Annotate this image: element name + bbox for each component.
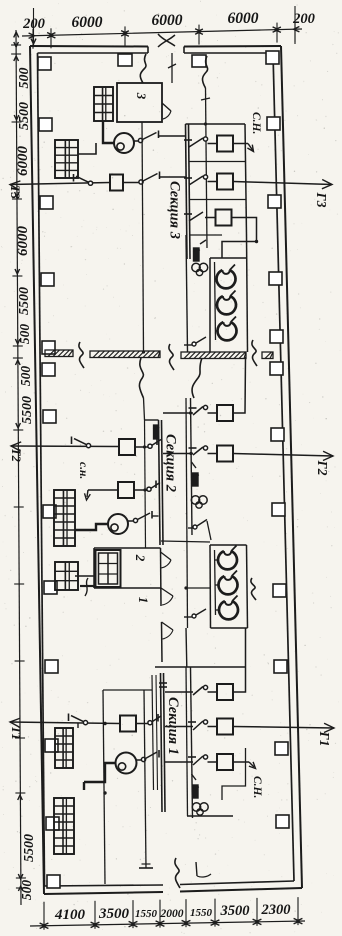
capacitor room inner feeder mid [215,550,216,615]
left cell 2 to S.N. arrow [88,489,118,491]
svg-text:Т1: Т1 [9,726,23,740]
column top wall a [118,54,132,66]
column right wall row1 [266,51,279,64]
partition wall door squiggle 3 [252,340,257,366]
right feeder column section 2 [191,398,193,535]
door arc bottom middle [196,862,197,876]
svg-text:3500: 3500 [220,903,250,919]
left dim arrowheads at label ticks [14,42,19,47]
top wall opening jamb right [183,47,185,54]
row line busbar to feeder R2 section 2 [163,453,193,455]
battery panel stack left section 3 [55,140,78,178]
riser left cells section 2 [145,420,146,548]
partition wall door gap squiggle 2 [169,344,174,370]
row line busbar to feeder R1 section 1 [165,691,193,693]
left cell box section 1 [120,716,136,732]
auxiliary transformer circle section 3 [114,133,134,153]
left cell disconnector section 1 [136,723,148,725]
door of chamber 3 [162,103,171,111]
cell row R2 section 1: disconnector [193,721,203,730]
door squiggle right of mid capacitor room [251,578,256,600]
column left wall row2 [39,118,52,131]
transformer to busbar disconnector section 1 [137,759,142,761]
column right wall row8 [273,584,286,597]
svg-text:6000: 6000 [228,10,259,27]
incoming cable squiggle left of entrance [140,54,146,83]
svg-text:6000: 6000 [152,12,183,29]
column right wall row11 [276,815,289,828]
cable squiggle through partition left section 2 [139,358,143,398]
disconnector bottom right section 2 [188,527,193,529]
column left wall row3 [40,196,53,209]
svg-text:1550: 1550 [135,908,158,920]
ground tick bottom of riser [139,867,153,869]
cell row R1 section 2: breaker box [217,405,233,421]
cell row 3 section 3: link down to capacitor room [222,218,257,259]
capacitor unit 2 section 3 [217,296,236,314]
cell row R3 section 1: breaker box [217,754,233,770]
feeder line T3 with arrow [10,183,110,185]
column left wall row9 [45,660,58,673]
svg-text:5500: 5500 [17,287,32,315]
room right wall upper with doors [160,548,163,606]
capacitor room inner feeder section 3 [215,262,216,340]
row line into capacitor room mid [188,587,211,589]
transformer chamber box 3 [117,83,162,122]
cell row R3 section 1: outgoing to S.N. [233,761,249,763]
busbar enclosure lines section 1 [152,675,154,790]
feeder line T1 with arrow [10,722,120,724]
column right wall row3 [268,195,281,208]
svg-text:6000: 6000 [15,226,31,257]
capacitor unit 3 mid [219,601,238,619]
cell row R1 section 1: link up to capacitor room [233,628,246,692]
long riser line section 1 [144,690,146,868]
feeder line G3 with arrow [233,182,332,185]
cell row 1 section 3: busbar tick [184,139,192,141]
cell row R2 section 2: breaker box [217,446,233,462]
svg-text:4100: 4100 [54,907,86,923]
cell row R1 section 1: tick [159,682,167,684]
column top wall b [192,55,206,67]
svg-text:Г2: Г2 [315,460,330,476]
cell row R1 section 2: link up to capacitor room above [233,357,246,413]
extension line top right corner [294,6,296,44]
left dimension line top arrow [14,32,19,37]
column left wall row5b [42,363,55,376]
column right wall row9 [274,660,287,673]
cable squiggle at bottom door [175,858,180,888]
battery panel stack lower section 1 [54,798,74,854]
svg-text:5500: 5500 [17,102,32,130]
cell row R1 section 2: disconnector [193,407,203,416]
disconnector on T3 line [88,181,92,185]
incoming cable squiggle right of entrance [202,56,207,88]
partition wall hatched segment 4 [262,352,273,359]
capacitor unit 1 mid [218,551,237,569]
building outer wall left [30,46,44,894]
charger panel stack section 3 [94,87,113,121]
transformer to busbar disconnector section 2 [128,520,134,522]
svg-text:500: 500 [17,68,32,89]
capacitor unit 2 mid [219,576,238,594]
column right wall row6 [271,428,284,441]
cell row R1 section 2: tick [189,407,197,409]
left dimension line [16,30,21,905]
svg-text:1: 1 [136,597,151,604]
capacitor stubs section 3 [215,278,217,280]
left cell 2 disconnector section 2 [134,489,147,491]
column left wall row1 [38,57,51,70]
feeder line G2 with arrow [233,454,333,457]
battery panel stack 2 section 2 [55,562,78,590]
cable squiggle through partition right section 2 [192,358,202,398]
svg-text:5500: 5500 [22,834,37,862]
svg-text:1550: 1550 [190,907,213,919]
door arc room 2 upper [161,552,172,560]
top dimension line [22,29,302,36]
instrument circles section 2 [191,496,199,504]
left cell disconnector section 3 [123,182,139,184]
svg-text:6000: 6000 [72,14,103,31]
reactor coil element section 1 [193,785,199,798]
capacitor unit 3 section 3 [218,322,237,340]
disconnector below capacitor room [184,616,192,618]
thick wire stack to transformer section 3 [103,121,114,143]
disconnector on T1 line [83,721,87,725]
instrument circles section 3 [192,263,200,271]
junction dot [255,240,258,243]
transformer grid box room 2 [96,550,121,587]
right feeder column section 1 [191,667,193,818]
battery stack to T1 link [77,724,79,729]
busbar section 2 [159,420,161,545]
tick on riser [201,98,210,100]
cell row 2 section 3: disconnector [189,176,203,185]
cell row R1 section 1: disconnector [193,687,203,696]
bottom dimension line [30,921,305,926]
riser below chamber 3 to partition [142,122,144,352]
svg-text:500: 500 [19,880,34,901]
left cell box 2 section 2 [118,482,134,498]
cell row R2 section 1: tick [188,721,196,723]
column left wall row11 [46,817,59,830]
svg-text:Т2: Т2 [9,448,23,462]
svg-text:Секция 2: Секция 2 [163,434,179,492]
disconnector lower left of capacitor room section 3 [184,344,192,346]
svg-text:500: 500 [18,366,33,387]
busbar section 3 [186,124,188,259]
battery panel stack section 2 [54,490,75,546]
reactor coil element section 3 [194,248,200,261]
instrument circles section 1 [192,803,200,811]
column right wall row4 [269,272,282,285]
cell row 3 section 3: disconnector [189,212,203,221]
battery panel stack upper section 1 [55,728,73,768]
top wall opening jamb left [147,47,149,54]
column left wall row4 [41,273,54,286]
capacitor stubs mid [215,559,219,561]
feeder riser in cell block section 3 [206,88,208,248]
partition wall hatched segment 2 [90,351,160,358]
junction dot T1 column [103,722,106,725]
svg-text:Секция 3: Секция 3 [167,181,183,239]
dark reactor bar at busbar top section 2 [154,425,159,439]
cell row R2 section 2: tick [189,447,197,449]
column right wall row2 [267,117,280,130]
riser from entrance to chamber [171,53,173,83]
svg-text:3: 3 [134,92,149,100]
auxiliary transformer circle section 1 [116,753,137,774]
cell row 2 section 3: busbar tick [184,177,192,179]
auxiliary transformer circle section 2 [108,514,128,534]
capacitor room section 3 outline [209,258,211,352]
svg-text:С.Н.: С.Н. [250,112,262,134]
left cell 1 disconnector section 2 [135,446,148,448]
left block top line section 1 [103,689,152,691]
transformer chamber room 2 outline [94,547,161,549]
column right wall row5a [270,330,283,343]
column right wall row10 [275,742,288,755]
cells boundary continuation below capacitor room [185,628,188,667]
svg-text:6000: 6000 [15,146,31,177]
cell boundary line left of capacitor room [186,235,188,352]
row line busbar to feeder R3 section 1 [165,761,193,763]
svg-text:5500: 5500 [20,396,35,424]
opening break mark X at top entrance [158,34,175,46]
link line from left stack [78,143,96,154]
corridor line to mid capacitor room [161,541,210,542]
feeder line G1 with arrow [233,727,334,729]
svg-text:с.н.: с.н. [77,462,89,479]
feeder line T2 with arrow [11,445,119,448]
svg-text:3500: 3500 [98,906,130,922]
column right wall row7 [272,503,285,516]
svg-text:Г3: Г3 [314,192,329,208]
cell block outline section 3 [186,123,246,125]
column left wall row5a [42,341,55,354]
cell row 1 section 3: disconnector [189,138,203,147]
shared capacitor room outline [210,544,247,546]
door arc room 1 [162,622,174,630]
column left wall row12 [47,875,60,888]
cell row R2 section 2: disconnector [193,447,203,455]
riser to section 2 busbar [144,398,145,420]
cell block bottom edge section 1 [187,815,233,817]
building outer wall bottom [44,892,163,894]
partition wall hatched segment 3 [181,352,246,359]
column left wall row7 [43,505,56,518]
incoming left cell box section 3 [110,175,123,191]
left boundary of capacitor area mid [186,398,188,628]
svg-text:С.Н.: С.Н. [251,776,263,798]
row line busbar to feeder R2 section 1 [165,726,193,728]
column left wall row8 [44,581,57,594]
busbar section 1 [161,673,163,812]
column left wall row6 [43,410,56,423]
thick wire to transformer section 1 [84,763,116,782]
cell row 1 section 3: breaker box [217,136,233,152]
cell row 1 section 3: outgoing line to S.N. [233,143,248,145]
disconnector on T2 line [86,444,90,448]
column right wall row5b [270,362,283,375]
transformer to busbar disconnector section 3 [134,140,139,142]
left cell box 1 section 2 [119,439,135,455]
thick wire to transformer section 2 [75,524,108,530]
reactor coil element section 2 [193,473,199,486]
cell row 2 section 3: breaker box [217,174,233,190]
thick wire elbow section 1 [83,782,85,790]
cell row 3 section 3: breaker box [216,210,232,226]
svg-text:2: 2 [133,554,148,562]
section 1 block top line [155,666,246,668]
extension line top left corner [33,8,35,46]
building outer wall right [281,46,302,888]
cell row R1 section 1: breaker box [217,684,233,700]
left cell column riser section 1 [103,690,105,884]
column left wall row10 [45,739,58,752]
building outer wall top [30,45,148,48]
svg-text:Г1: Г1 [317,731,332,747]
cell row R3 section 1: disconnector [193,756,203,765]
svg-text:2300: 2300 [261,902,291,918]
junction dots on lines [143,445,146,448]
row line busbar to feeder R1 section 2 [163,412,193,414]
partition wall hatched segment 1 [45,350,73,357]
partition wall door squiggle 1 [79,342,84,368]
cell row R3 section 1: tick [188,756,196,758]
S.N. cell L-link section 1 [222,748,246,800]
cell row 3 section 3: busbar tick [184,213,192,215]
cell row R2 section 1: breaker box [217,719,233,735]
capacitor unit 1 section 3 [217,270,236,288]
column tie line section 2 [75,575,95,577]
door arc room 2 lower [161,588,173,596]
svg-text:2000: 2000 [160,908,184,920]
door swing at room2 bottom-left [85,578,88,596]
